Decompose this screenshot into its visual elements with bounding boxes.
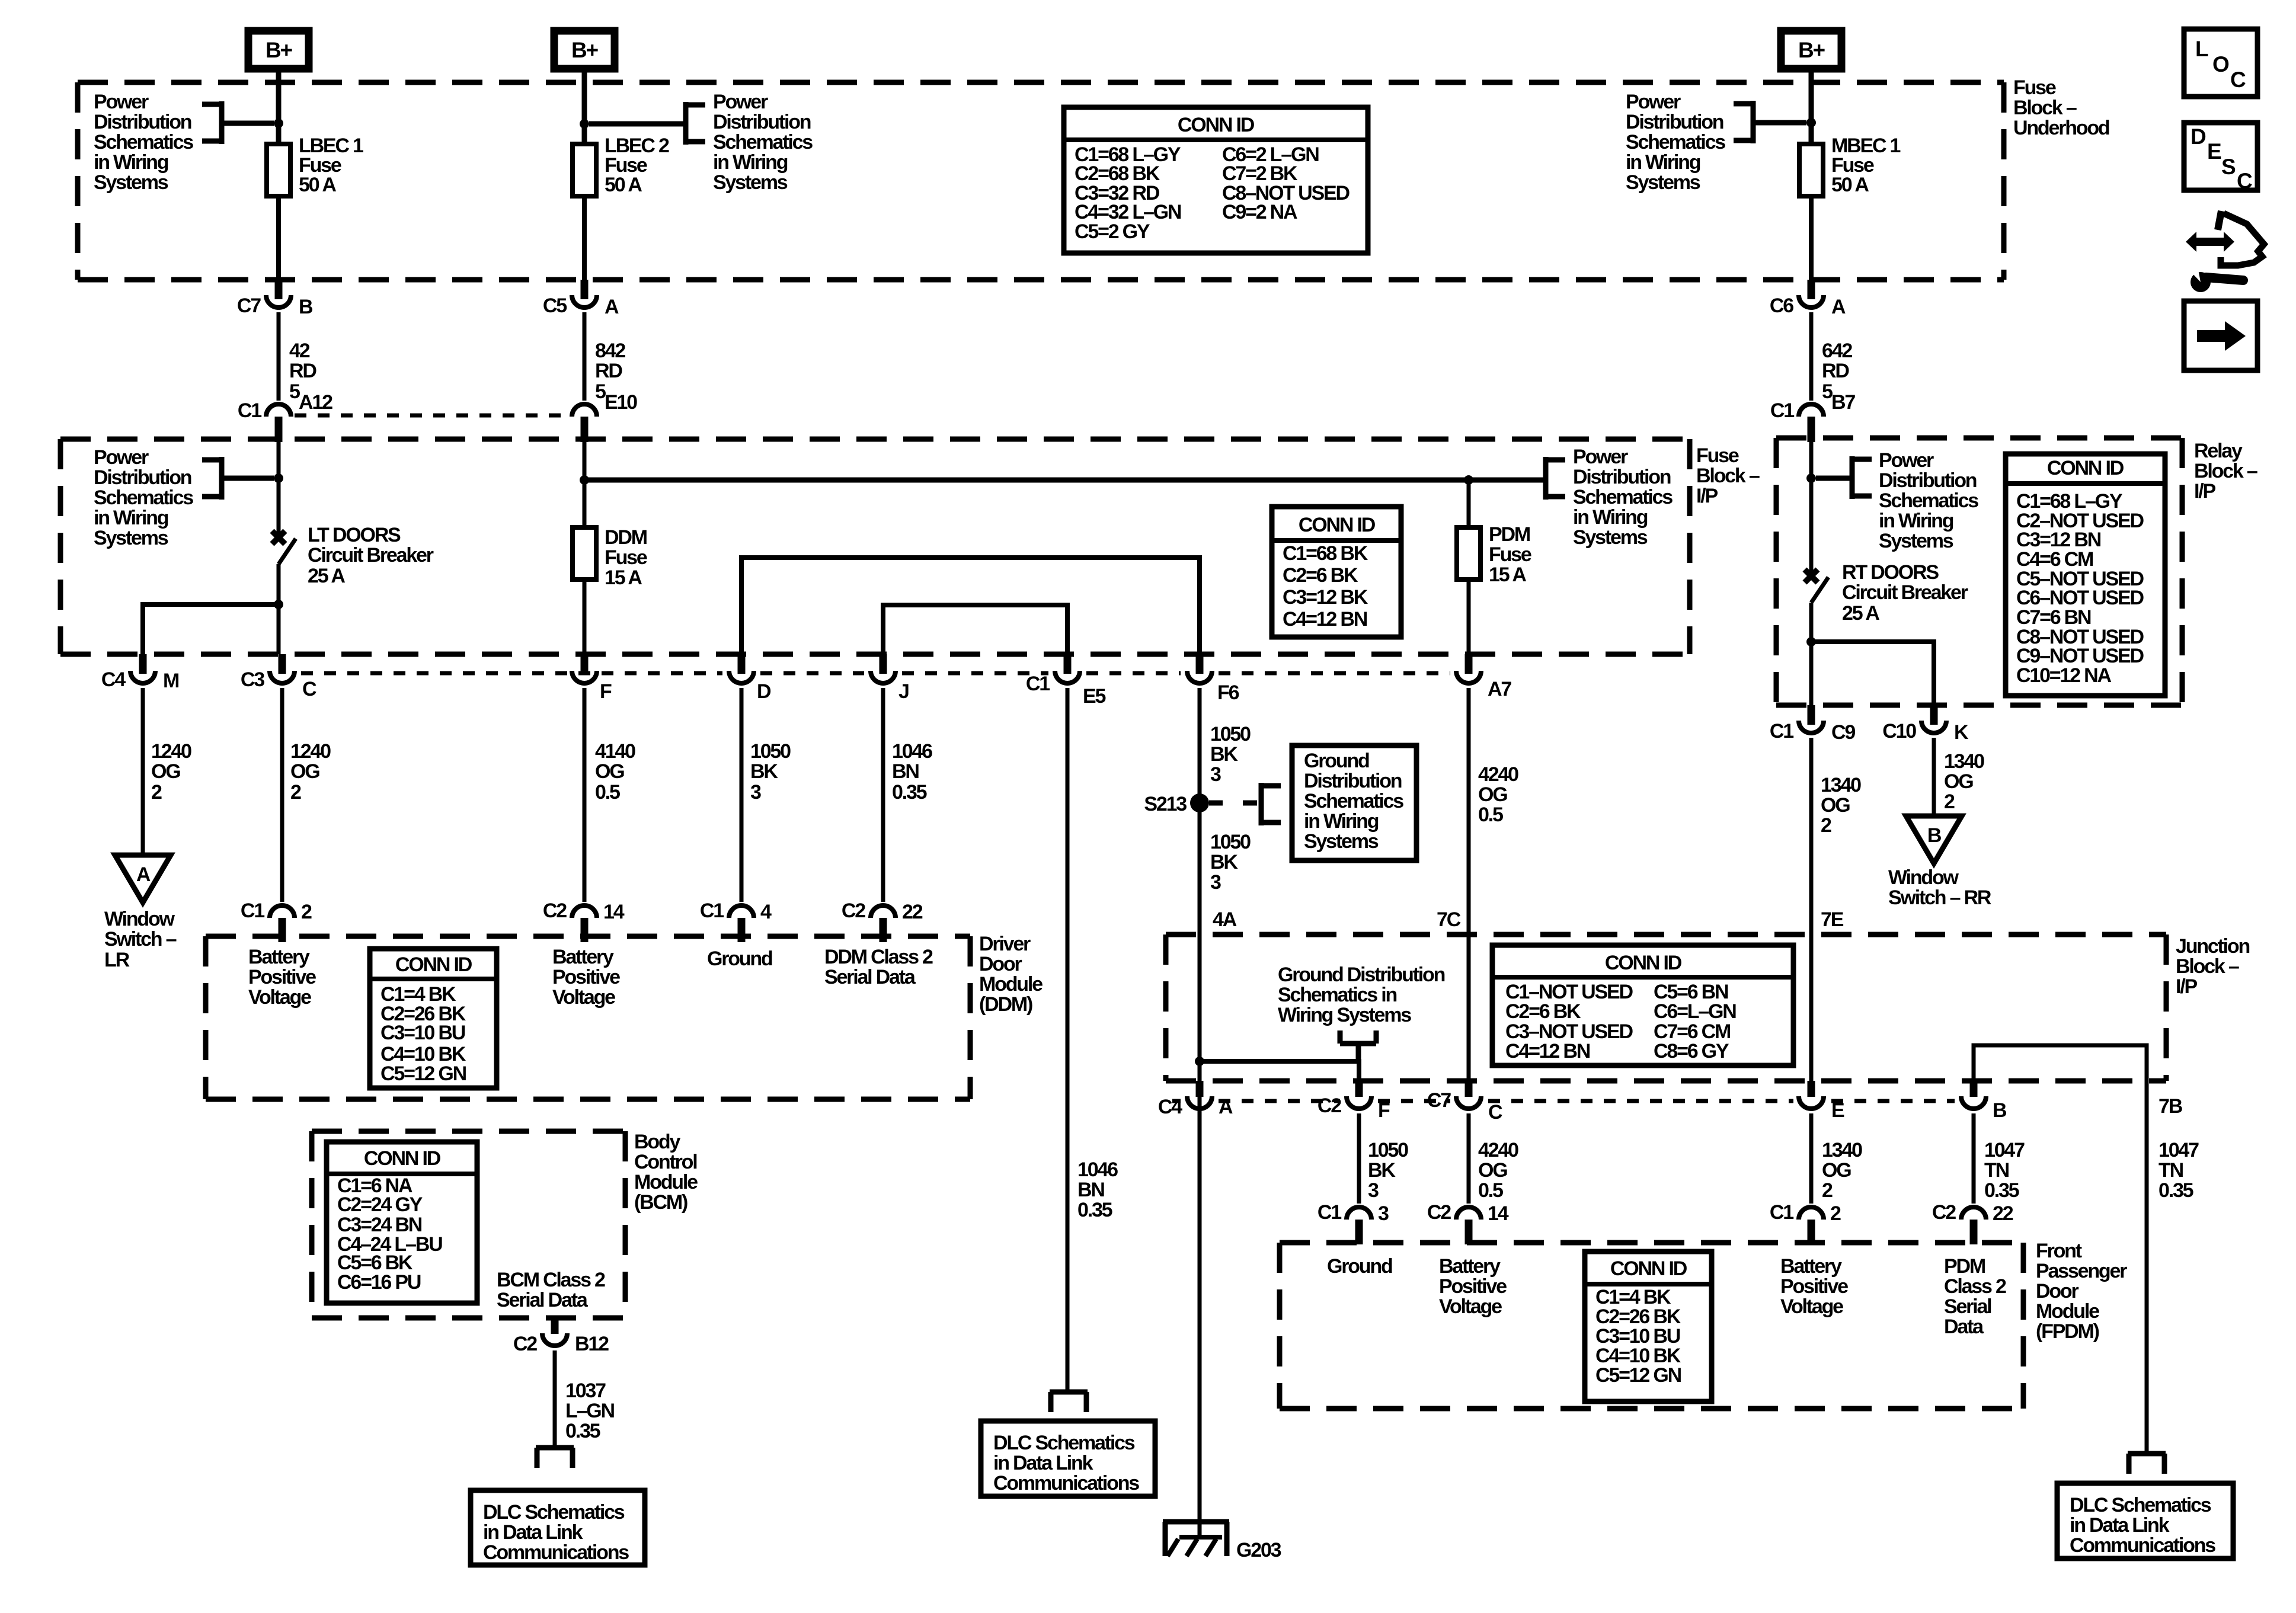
svg-text:OG: OG	[1944, 770, 1973, 793]
connector C1 pin 4 (DDM)	[700, 900, 772, 942]
svg-text:C1: C1	[1026, 673, 1050, 695]
svg-text:Distribution: Distribution	[1573, 466, 1671, 488]
svg-text:Schematics: Schematics	[1573, 486, 1673, 508]
icon jump-to (arrow, outline, wrench)	[2186, 211, 2264, 292]
svg-text:C3: C3	[241, 668, 264, 691]
connector D (fuse block)	[729, 654, 771, 703]
wire 1240 OG 2 (window switch LR)	[141, 688, 145, 855]
wire label 4240 OG 0.5 upper	[1478, 763, 1518, 826]
wire 842 RD 5	[583, 312, 587, 401]
connector E (junction block)	[1799, 1081, 1844, 1122]
connector C1 pin A12	[238, 391, 332, 442]
svg-text:Relay: Relay	[2194, 440, 2243, 462]
svg-text:Switch – RR: Switch – RR	[1888, 886, 1991, 909]
svg-text:7E: 7E	[1821, 908, 1844, 931]
wire PDM fuse to A7	[1467, 580, 1471, 654]
power distribution schematics label (I/P left)	[94, 446, 193, 549]
svg-text:C3=10 BU: C3=10 BU	[380, 1022, 465, 1044]
svg-text:Distribution: Distribution	[1626, 111, 1723, 133]
wire label 7C	[1437, 908, 1461, 931]
svg-text:A: A	[1831, 296, 1846, 318]
svg-text:RD: RD	[1822, 360, 1849, 382]
wire ground run D corner	[741, 558, 1200, 654]
junction dot LT DOORS output	[274, 600, 283, 609]
svg-text:E: E	[1831, 1099, 1844, 1122]
svg-text:Ground: Ground	[707, 948, 772, 970]
svg-text:C1: C1	[1770, 720, 1793, 743]
fuse LBEC 1 label	[299, 135, 363, 196]
svg-text:Voltage: Voltage	[248, 986, 311, 1009]
connector A7 (fuse block)	[1456, 654, 1511, 700]
fuse MBEC 1 50A	[1799, 144, 1823, 196]
conn id table (junction block)	[1492, 945, 1793, 1065]
off-page fork to DLC (right)	[2128, 1454, 2166, 1474]
svg-text:Distribution: Distribution	[1304, 770, 1402, 792]
connector C1 pin E5	[1026, 654, 1106, 708]
svg-text:CONN ID: CONN ID	[2047, 457, 2124, 479]
relay block - I/P label	[2194, 440, 2257, 503]
svg-text:G203: G203	[1236, 1539, 1281, 1561]
wire label 1050 BK 3 (DDM ground)	[750, 740, 791, 804]
svg-text:1340: 1340	[1822, 1139, 1862, 1161]
svg-text:CONN ID: CONN ID	[364, 1147, 441, 1170]
svg-text:C2: C2	[543, 900, 567, 922]
svg-text:C2: C2	[842, 900, 865, 922]
connector C7 pin B	[237, 280, 313, 318]
svg-text:1046: 1046	[1077, 1158, 1118, 1181]
svg-text:0.35: 0.35	[1077, 1199, 1112, 1221]
wire label 1340 OG 2 (7E)	[1821, 774, 1861, 837]
svg-text:0.5: 0.5	[1478, 1179, 1503, 1202]
svg-text:A12: A12	[299, 391, 332, 414]
svg-text:Systems: Systems	[1626, 171, 1700, 194]
svg-text:F6: F6	[1217, 681, 1239, 704]
svg-text:3: 3	[1210, 871, 1221, 894]
wire 1047 TN 0.35 (FPDM data)	[1972, 1113, 1976, 1204]
svg-text:F: F	[600, 680, 612, 703]
svg-text:TN: TN	[1984, 1159, 2009, 1182]
connector C7 pin C (junction block)	[1427, 1081, 1502, 1124]
svg-text:in Wiring: in Wiring	[1626, 151, 1700, 174]
pointer line to power distribution label (relay)	[1816, 476, 1852, 481]
bracket for power distribution label (I/P right)	[1544, 457, 1565, 500]
ground distribution schematics box	[1292, 745, 1416, 860]
svg-text:Serial Data: Serial Data	[497, 1289, 589, 1311]
svg-text:C: C	[2230, 68, 2246, 92]
wire B7 into relay block	[1809, 439, 1814, 574]
connector C2 pin 22 (FPDM)	[1932, 1201, 2013, 1244]
pointer line to power distribution label (MBEC1)	[1753, 120, 1806, 126]
svg-text:(BCM): (BCM)	[634, 1191, 687, 1214]
svg-text:Window: Window	[104, 908, 175, 930]
body control module dashed outline	[312, 1131, 625, 1318]
svg-text:Fuse: Fuse	[605, 546, 647, 569]
connector F (fuse block)	[572, 654, 612, 703]
wire 642 RD 5	[1809, 312, 1814, 401]
svg-text:22: 22	[902, 901, 923, 923]
svg-text:(DDM): (DDM)	[979, 993, 1032, 1016]
svg-text:Power: Power	[1879, 449, 1934, 472]
junction block - I/P label	[2176, 935, 2249, 998]
connector C2 pin 14 (FPDM)	[1427, 1201, 1509, 1244]
svg-text:Distribution: Distribution	[713, 111, 811, 133]
circuit breaker LT DOORS 25A	[272, 531, 296, 604]
fuse PDM 15A	[1457, 527, 1480, 580]
wire label 1340 OG 2 (RR)	[1944, 750, 1984, 813]
svg-text:OG: OG	[151, 760, 180, 783]
wire label 7B	[2159, 1095, 2183, 1118]
wire label 4240 OG 0.5 lower	[1478, 1139, 1518, 1202]
conn id table (relay block)	[2006, 454, 2165, 696]
wire 1037 L-GN 0.35	[553, 1350, 557, 1448]
wire B+ to MBEC1 fuse	[1809, 72, 1814, 144]
svg-text:E10: E10	[605, 391, 637, 414]
svg-text:4140: 4140	[595, 740, 635, 763]
svg-text:S: S	[2221, 155, 2236, 179]
svg-text:Battery: Battery	[1439, 1255, 1501, 1278]
svg-text:Schematics: Schematics	[713, 131, 813, 153]
svg-text:DDM Class 2: DDM Class 2	[824, 946, 933, 968]
svg-text:1240: 1240	[151, 740, 191, 763]
svg-text:Systems: Systems	[713, 171, 788, 194]
svg-text:50 A: 50 A	[605, 174, 642, 196]
svg-text:Schematics: Schematics	[1626, 131, 1725, 153]
svg-text:Voltage: Voltage	[1439, 1295, 1502, 1318]
svg-text:L–GN: L–GN	[565, 1400, 615, 1422]
wire breaker output to window switch branch	[143, 604, 279, 654]
svg-text:C1: C1	[1770, 399, 1794, 422]
wire label 1047 TN 0.35 (right)	[2159, 1139, 2199, 1202]
svg-text:Junction: Junction	[2176, 935, 2249, 958]
svg-text:C1: C1	[1318, 1201, 1341, 1224]
svg-text:Positive: Positive	[552, 966, 620, 988]
svg-text:BCM Class 2: BCM Class 2	[497, 1269, 605, 1291]
svg-text:A: A	[605, 296, 619, 318]
svg-text:Underhood: Underhood	[2013, 117, 2109, 139]
off-page triangle A (window switch LR)	[115, 855, 171, 902]
svg-text:14: 14	[603, 901, 625, 923]
wire 1340 OG 2 (7E)	[1809, 738, 1814, 1081]
fuse MBEC 1 label	[1831, 135, 1901, 196]
DLC schematics box (right)	[2057, 1483, 2233, 1558]
svg-text:Voltage: Voltage	[1780, 1295, 1843, 1318]
svg-text:1037: 1037	[565, 1380, 606, 1402]
svg-text:C7: C7	[237, 295, 261, 317]
svg-text:Front: Front	[2036, 1240, 2082, 1262]
junction dot DDM feed branch	[580, 475, 589, 485]
wire label 1240 OG 2 (LR)	[151, 740, 191, 804]
fuse block - underhood dashed outline	[78, 82, 2004, 280]
svg-text:Serial Data: Serial Data	[824, 966, 916, 988]
wire F6 drop	[0, 0, 1, 1]
wire label 642 RD 5	[1822, 340, 1852, 403]
svg-text:4240: 4240	[1478, 763, 1518, 786]
off-page fork to DLC (left)	[536, 1448, 574, 1468]
bracket for power distribution label (LBEC2)	[685, 102, 705, 145]
svg-text:BN: BN	[892, 760, 919, 783]
wire 42 RD 5	[277, 312, 281, 401]
wire 1240 OG 2 (DDM batt)	[280, 688, 284, 902]
svg-text:DDM: DDM	[605, 526, 647, 549]
fuse DDM 15A	[573, 527, 596, 580]
svg-text:25 A: 25 A	[1842, 602, 1879, 625]
wire label 42 RD 5	[289, 340, 316, 403]
svg-text:B12: B12	[575, 1333, 609, 1355]
wire label 1050 BK 3 lower	[1210, 831, 1251, 894]
svg-text:Positive: Positive	[1439, 1275, 1507, 1298]
svg-text:Power: Power	[1573, 446, 1628, 468]
circuit breaker RT DOORS 25A	[1805, 569, 1828, 642]
svg-text:BK: BK	[1210, 851, 1238, 873]
wire label 842 RD 5	[595, 340, 625, 403]
svg-text:CONN ID: CONN ID	[395, 953, 472, 976]
svg-text:25 A: 25 A	[308, 565, 345, 587]
svg-text:PDM: PDM	[1944, 1255, 1985, 1278]
wire RT DOORS to C9	[1809, 642, 1814, 705]
svg-text:B: B	[299, 296, 313, 318]
svg-text:2: 2	[1822, 1179, 1833, 1202]
svg-text:in Wiring: in Wiring	[1573, 506, 1648, 529]
svg-text:A7: A7	[1488, 678, 1511, 700]
svg-text:1050: 1050	[750, 740, 791, 763]
svg-text:DLC Schematics: DLC Schematics	[2070, 1494, 2211, 1516]
power distribution schematics label (relay)	[1879, 449, 1978, 552]
svg-text:OG: OG	[1478, 1159, 1507, 1182]
svg-text:Circuit Breaker: Circuit Breaker	[1842, 581, 1968, 604]
connector C4 pin A (junction block)	[1158, 1081, 1233, 1118]
svg-text:Schematics: Schematics	[94, 487, 193, 509]
svg-text:Fuse: Fuse	[1489, 543, 1531, 566]
relay block - I/P dashed outline	[1776, 438, 2182, 705]
svg-text:B+: B+	[266, 38, 293, 62]
conn id table (fuse block I/P)	[1272, 507, 1401, 637]
svg-text:C2: C2	[1427, 1201, 1451, 1224]
junction dot power distribution tap (I/P left)	[274, 473, 283, 483]
svg-text:(FPDM): (FPDM)	[2036, 1320, 2099, 1343]
svg-text:TN: TN	[2159, 1159, 2183, 1182]
svg-text:Schematics in: Schematics in	[1278, 984, 1396, 1006]
svg-text:4A: 4A	[1213, 908, 1237, 931]
FPDM battery positive voltage label	[1439, 1255, 1507, 1318]
svg-text:Wiring Systems: Wiring Systems	[1278, 1004, 1411, 1026]
wire 1046 BN 0.35 (to DLC)	[1066, 688, 1070, 1391]
svg-text:Fuse: Fuse	[2013, 76, 2056, 99]
conn id table (DDM)	[370, 949, 497, 1088]
wire E5 drop	[0, 0, 1, 1]
svg-text:Distribution: Distribution	[1879, 469, 1977, 492]
svg-text:I/P: I/P	[2176, 975, 2197, 998]
svg-text:PDM: PDM	[1489, 523, 1530, 546]
svg-text:3: 3	[1378, 1202, 1389, 1225]
svg-text:Power: Power	[1626, 91, 1681, 113]
svg-text:B: B	[1993, 1099, 2007, 1122]
svg-text:Class 2: Class 2	[1944, 1275, 2006, 1298]
svg-text:C10=12 NA: C10=12 NA	[2016, 664, 2111, 687]
junction dot power distribution tap (relay)	[1806, 473, 1816, 483]
fuse DDM label	[605, 526, 647, 589]
svg-text:7B: 7B	[2159, 1095, 2183, 1118]
svg-text:Fuse: Fuse	[1696, 444, 1739, 467]
wire label 4A	[1213, 908, 1237, 931]
svg-text:0.35: 0.35	[1984, 1179, 2019, 1202]
svg-text:K: K	[1954, 721, 1969, 744]
svg-text:1050: 1050	[1210, 831, 1251, 853]
connector C1 pin C9	[1770, 705, 1855, 744]
svg-text:Block –: Block –	[2176, 955, 2239, 978]
svg-text:7C: 7C	[1437, 908, 1461, 931]
svg-text:0.35: 0.35	[892, 781, 927, 804]
svg-text:C: C	[302, 678, 316, 700]
wire PDM branch to fuse	[1467, 480, 1471, 527]
svg-text:LT DOORS: LT DOORS	[308, 524, 401, 546]
svg-text:D: D	[2191, 124, 2206, 149]
fuse block - I/P label	[1696, 444, 1760, 507]
svg-text:Communications: Communications	[993, 1472, 1139, 1494]
svg-text:A: A	[1219, 1096, 1233, 1118]
svg-text:C5=12 GN: C5=12 GN	[380, 1062, 466, 1085]
connector C2 pin B12 (BCM)	[513, 1318, 609, 1355]
svg-text:CONN ID: CONN ID	[1178, 114, 1255, 136]
svg-text:RD: RD	[595, 360, 622, 382]
svg-text:C9=2 NA: C9=2 NA	[1222, 201, 1297, 223]
svg-text:C2: C2	[513, 1333, 537, 1355]
svg-text:Systems: Systems	[94, 171, 168, 194]
conn id table (BCM)	[327, 1142, 477, 1303]
junction dot ground spread	[1195, 1057, 1204, 1066]
dotted harness link lower row (A-F-C-E-B)	[1172, 1099, 1955, 1103]
svg-text:Block –: Block –	[2194, 460, 2257, 482]
wire label 1240 OG 2 (DDM)	[290, 740, 331, 804]
svg-text:B+: B+	[571, 38, 599, 62]
pointer line to power distribution label (I/P left)	[222, 476, 274, 481]
wire label 1340 OG 2 (FPDM batt)	[1822, 1139, 1862, 1202]
svg-text:Control: Control	[634, 1151, 697, 1173]
wire serial data run J corner	[883, 605, 1067, 654]
splice S213	[1144, 793, 1209, 815]
connector C10 pin K	[1882, 705, 1969, 744]
wire ground spread horizontal	[1200, 1061, 1359, 1081]
svg-text:E: E	[2207, 139, 2221, 164]
svg-text:C6=L–GN: C6=L–GN	[1654, 1000, 1736, 1023]
svg-text:0.5: 0.5	[1478, 804, 1503, 826]
off-page fork to DLC (centre)	[1050, 1392, 1088, 1412]
wire LT DOORS to C3	[277, 604, 281, 654]
svg-text:1047: 1047	[1984, 1139, 2025, 1161]
connector C1 pin 2 (DDM)	[241, 900, 312, 942]
svg-text:C10: C10	[1882, 720, 1916, 743]
svg-text:BK: BK	[750, 760, 778, 783]
svg-text:Schematics: Schematics	[94, 131, 193, 153]
pointer dashes from S213	[1209, 801, 1257, 806]
wire DDM feed to PDM branch	[584, 478, 1546, 483]
svg-text:B+: B+	[1798, 38, 1825, 62]
svg-text:4240: 4240	[1478, 1139, 1518, 1161]
svg-text:Schematics: Schematics	[1304, 790, 1403, 812]
wire 1050 BK 3 (DDM ground)	[740, 688, 744, 902]
connector C1 pin 3 (FPDM)	[1318, 1201, 1389, 1244]
wire B+ to LBEC2 fuse	[582, 72, 587, 144]
power distribution schematics label (LBEC2)	[713, 91, 813, 194]
svg-text:E5: E5	[1083, 685, 1105, 708]
svg-text:2: 2	[151, 781, 162, 804]
svg-text:3: 3	[750, 781, 761, 804]
driver door module label	[979, 933, 1043, 1016]
svg-text:642: 642	[1822, 340, 1852, 362]
svg-text:C1: C1	[238, 399, 261, 422]
svg-text:I/P: I/P	[1696, 485, 1718, 507]
driver door module dashed outline	[206, 936, 970, 1099]
ground G203 label	[1236, 1539, 1281, 1561]
circuit breaker LT DOORS label	[308, 524, 434, 587]
svg-text:2: 2	[1830, 1202, 1841, 1225]
wire 1050 BK 3 upper	[1198, 688, 1202, 1538]
FPDM ground label	[1327, 1255, 1392, 1278]
power distribution schematics label (I/P right)	[1573, 446, 1673, 549]
svg-text:Systems: Systems	[1573, 526, 1648, 549]
front passenger door module dashed outline	[1280, 1243, 2023, 1409]
svg-text:M: M	[163, 670, 179, 692]
svg-text:S213: S213	[1144, 793, 1187, 815]
svg-text:3: 3	[1210, 763, 1221, 786]
wire label 1050 BK 3 (FPDM ground)	[1368, 1139, 1408, 1202]
svg-text:842: 842	[595, 340, 625, 362]
fuse LBEC 1 50A	[267, 144, 290, 196]
DDM ground label	[707, 948, 772, 970]
svg-text:50 A: 50 A	[1831, 174, 1869, 196]
DDM battery positive voltage label 2	[552, 946, 620, 1009]
svg-text:15 A: 15 A	[605, 567, 642, 589]
connector C2 pin 22 (DDM)	[842, 900, 923, 942]
svg-text:Switch –: Switch –	[104, 928, 177, 950]
svg-text:Circuit Breaker: Circuit Breaker	[308, 544, 434, 567]
svg-text:1050: 1050	[1368, 1139, 1408, 1161]
svg-text:C3=12 BK: C3=12 BK	[1283, 586, 1368, 609]
dotted harness link C row (C-D-J-E5-F6-A7)	[301, 671, 1450, 676]
DLC schematics box (centre)	[981, 1421, 1155, 1496]
FPDM battery positive voltage label 2	[1780, 1255, 1848, 1318]
svg-text:Positive: Positive	[1780, 1275, 1848, 1298]
svg-text:1340: 1340	[1944, 750, 1984, 773]
svg-text:1047: 1047	[2159, 1139, 2199, 1161]
svg-text:C5=2 GY: C5=2 GY	[1075, 220, 1150, 243]
junction dot power distribution tap (LBEC2)	[580, 119, 589, 129]
svg-text:15 A: 15 A	[1489, 564, 1526, 586]
svg-text:in Wiring: in Wiring	[94, 151, 168, 174]
svg-text:C: C	[2237, 169, 2252, 193]
svg-text:C1: C1	[241, 900, 264, 922]
svg-text:C4: C4	[1158, 1096, 1182, 1118]
pointer line to power distribution label (LBEC2)	[589, 121, 686, 127]
svg-text:1240: 1240	[290, 740, 331, 763]
svg-text:OG: OG	[1822, 1159, 1851, 1182]
fuse LBEC 2 label	[605, 135, 669, 196]
pointer line to power distribution label (LBEC1)	[222, 121, 274, 126]
off-page triangle B (window switch RR)	[1906, 816, 1962, 863]
svg-text:Battery: Battery	[248, 946, 310, 968]
svg-text:J: J	[898, 680, 909, 703]
svg-text:Communications: Communications	[483, 1541, 629, 1564]
window switch RR label	[1888, 866, 1991, 909]
junction dot RT DOORS output	[1806, 637, 1816, 647]
svg-text:Module: Module	[2036, 1300, 2099, 1323]
wire MBEC1 fuse to C6	[1809, 196, 1814, 280]
DDM class 2 serial data label	[824, 946, 933, 988]
front passenger door module label	[2036, 1240, 2127, 1343]
bracket for power distribution label (LBEC1)	[202, 101, 223, 144]
junction dot PDM branch	[1464, 475, 1473, 485]
ground symbol G203	[1163, 1522, 1229, 1556]
svg-text:BK: BK	[1368, 1159, 1396, 1182]
